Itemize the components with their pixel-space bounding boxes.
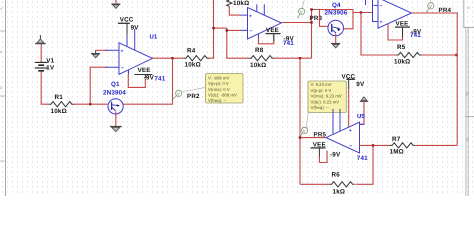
svg-text:VEE: VEE xyxy=(266,27,279,34)
svg-text:VEE: VEE xyxy=(396,21,409,28)
op-amp U3 741 (cut at top) xyxy=(374,0,412,28)
svg-text:−: − xyxy=(250,29,253,35)
probe info box PR2 xyxy=(206,74,244,104)
op-amp U1 741 xyxy=(106,29,153,75)
svg-text:V(freq): --: V(freq): -- xyxy=(208,98,226,103)
resistor (cut at top) vertical 10k xyxy=(227,0,232,6)
svg-text:R8: R8 xyxy=(255,47,264,54)
wire PR2 vertical leg xyxy=(123,58,173,104)
probe PR5 xyxy=(300,127,308,136)
svg-text:B: B xyxy=(466,92,469,97)
wire R8 node down to U5 output xyxy=(299,58,301,184)
svg-text:V(rms): 9.23 mV: V(rms): 9.23 mV xyxy=(311,94,342,99)
svg-text:10kΩ: 10kΩ xyxy=(51,108,67,115)
svg-text:U1: U1 xyxy=(150,34,158,41)
svg-text:R6: R6 xyxy=(332,172,341,179)
blue wire into U3 + input xyxy=(373,0,379,22)
svg-text:VEE: VEE xyxy=(138,67,151,74)
svg-text:PR3: PR3 xyxy=(310,15,323,22)
probe PR3 xyxy=(297,0,304,18)
ground below Q1 xyxy=(110,127,122,132)
VEE symbol U3 xyxy=(388,24,403,40)
svg-text:+: + xyxy=(380,20,383,26)
svg-text:R1: R1 xyxy=(55,94,64,101)
wire U2 inverting input / R8 left leg xyxy=(227,28,249,58)
ground at U1 + input xyxy=(91,50,100,58)
svg-text:10kΩ: 10kΩ xyxy=(233,0,249,7)
svg-text:V(p-p): 0 V: V(p-p): 0 V xyxy=(208,81,229,86)
VEE symbol U2 xyxy=(259,35,274,44)
svg-text:-9V: -9V xyxy=(284,35,295,42)
wire feedback leg down to R6 row xyxy=(356,145,374,184)
svg-text:10kΩ: 10kΩ xyxy=(185,62,201,69)
svg-text:V(freq): --: V(freq): -- xyxy=(311,105,329,110)
wire R7 right to feedback vertical xyxy=(416,144,458,146)
svg-text:+: + xyxy=(121,49,124,55)
node junction at R4 vertical xyxy=(212,27,214,29)
svg-text:10kΩ: 10kΩ xyxy=(250,62,266,69)
resistor R4 10k xyxy=(184,56,209,61)
svg-text:741: 741 xyxy=(357,155,368,162)
svg-text:-9V: -9V xyxy=(411,29,422,36)
transistor Q4 2N3906 xyxy=(328,20,344,43)
svg-text:2N3904: 2N3904 xyxy=(103,89,126,96)
node junction R8 / U5 branch xyxy=(299,57,301,59)
svg-text:10kΩ: 10kΩ xyxy=(394,58,410,65)
node junction U2 output xyxy=(310,21,312,23)
svg-text:V: V xyxy=(177,92,180,97)
resistor R6 1k xyxy=(330,182,355,187)
wire ground to U5 + input xyxy=(360,102,365,125)
node junction U2 inv input xyxy=(226,29,228,31)
svg-text:PR2: PR2 xyxy=(187,93,200,100)
resistor R8 10k xyxy=(249,56,274,61)
probe info box PR5 xyxy=(308,81,346,113)
op-amp U5 741 (mirrored) xyxy=(326,109,365,153)
wire Q4 left leg xyxy=(320,10,328,27)
svg-text:−: − xyxy=(380,4,383,10)
svg-text:V: V xyxy=(300,10,303,15)
svg-text:+: + xyxy=(349,128,352,134)
node junction R5 leg xyxy=(360,11,362,13)
svg-text:V(dc): 9.23 mV: V(dc): 9.23 mV xyxy=(311,99,340,104)
svg-text:V1: V1 xyxy=(46,58,54,65)
battery V1 xyxy=(35,62,48,70)
leader PR2 to info box xyxy=(182,88,206,92)
svg-text:0: 0 xyxy=(0,87,2,91)
wire R5 right to feedback vertical xyxy=(421,54,456,56)
svg-text:PR4: PR4 xyxy=(439,7,452,14)
ground (flipped) above V1 xyxy=(35,35,46,44)
resistor R5 10k xyxy=(396,52,421,57)
svg-text:d: d xyxy=(468,6,470,10)
svg-text:741: 741 xyxy=(154,76,165,83)
probe PR4 xyxy=(426,0,434,12)
svg-text:1V: 1V xyxy=(46,65,55,72)
VEE symbol U1 xyxy=(128,74,145,87)
sheet border right xyxy=(464,0,474,27)
wire U1 inverting input leg xyxy=(90,67,107,104)
svg-text:2N3906: 2N3906 xyxy=(325,9,348,16)
svg-text:Q4: Q4 xyxy=(332,2,341,9)
svg-text:9V: 9V xyxy=(131,25,140,32)
wire R8 right to main vertical xyxy=(274,57,312,59)
op-amp U2 741 xyxy=(241,4,282,39)
wire R1 to Q1 base node xyxy=(74,103,108,105)
wire Q4 to U3 input xyxy=(353,12,373,14)
svg-text:V(p-p): 0 V: V(p-p): 0 V xyxy=(311,88,332,93)
wire VCC to U5 xyxy=(348,89,350,127)
svg-text:V: 9.23 mV: V: 9.23 mV xyxy=(311,82,332,87)
svg-text:1MΩ: 1MΩ xyxy=(390,149,404,156)
svg-text:0: 0 xyxy=(0,51,2,55)
svg-text:R4: R4 xyxy=(187,47,196,54)
ground below Q4 xyxy=(331,44,340,48)
svg-text:R7: R7 xyxy=(392,136,401,143)
leader PR5 to info box xyxy=(306,113,308,128)
wire U5 output xyxy=(300,137,326,139)
svg-text:Q1: Q1 xyxy=(111,81,120,88)
wire V1 bottom to R1 xyxy=(41,71,49,104)
svg-text:1kΩ: 1kΩ xyxy=(333,189,346,196)
resistor R1 10k xyxy=(49,102,74,107)
svg-text:V: V xyxy=(303,129,306,134)
svg-text:−: − xyxy=(121,65,124,71)
wire R4 right to U2 node xyxy=(209,0,214,58)
wire V1 top xyxy=(40,44,42,62)
svg-text:+: + xyxy=(249,13,252,19)
wire ground to U1 + input xyxy=(96,49,107,51)
ground (flipped) at U5 + input xyxy=(360,97,368,101)
wire U3 output xyxy=(412,13,458,146)
blue pin stub (cut) xyxy=(365,0,367,5)
resistor R7 1M xyxy=(390,143,415,148)
svg-text:A: A xyxy=(466,137,469,142)
wire R6 left to output vertical xyxy=(300,183,330,185)
svg-text:V(dc): -808 mV: V(dc): -808 mV xyxy=(208,93,237,98)
svg-text:4: 4 xyxy=(0,8,2,12)
wire Q4 right leg xyxy=(344,10,353,29)
VCC symbol U1 xyxy=(126,23,128,35)
node junction R1 / U1 inverting leg xyxy=(89,103,91,105)
svg-text:9V: 9V xyxy=(356,81,365,88)
wire U1 output to R4 xyxy=(153,57,184,59)
svg-text:-9V: -9V xyxy=(144,75,155,82)
wire U5 inverting row to R7 xyxy=(360,144,391,146)
ground top middle (cut wire from above) xyxy=(115,0,117,3)
svg-text:VCC: VCC xyxy=(120,16,134,23)
wire Q4 loop top xyxy=(312,9,354,11)
svg-text:−: − xyxy=(349,144,352,150)
svg-text:V: -808 mV: V: -808 mV xyxy=(208,75,229,80)
node junction R4 left / PR2 leg xyxy=(171,57,173,59)
wire resistor to U2 + input xyxy=(229,6,241,15)
transistor Q1 2N3904 xyxy=(108,99,123,126)
svg-text:-9V: -9V xyxy=(330,152,341,159)
sheet border left xyxy=(5,0,7,196)
wire R5 left leg xyxy=(361,13,396,56)
probe PR2 xyxy=(173,90,182,99)
wire from R4 node to U2 inverting input xyxy=(214,27,227,29)
svg-text:V(rms): 0 V: V(rms): 0 V xyxy=(208,87,230,92)
svg-text:R5: R5 xyxy=(397,44,406,51)
svg-text:U5: U5 xyxy=(357,113,365,120)
wire U2 output / main vertical xyxy=(281,10,311,59)
